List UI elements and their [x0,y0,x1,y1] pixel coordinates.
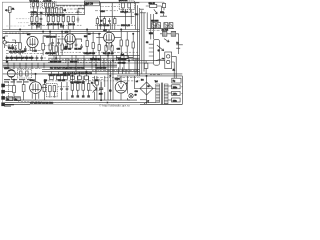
IF can box 1 [30,2,41,8]
ghost row 3 [6,25,26,27]
label row b [46,51,140,53]
capacitor C46 [71,96,74,97]
ghost row 1 [16,18,29,20]
label row r [146,29,162,31]
bus wire F [3,60,165,62]
ghost row 2 [18,22,29,24]
svg-text:C1 С2 Др1: C1 С2 Др1 [30,0,39,2]
junction 12 [123,62,124,63]
bridge diagonals [140,82,153,95]
terminal 2 [2,90,5,93]
bus wire E [48,57,139,59]
transformer core [161,83,162,105]
capacitor C52 [65,44,68,49]
wire [48,22,73,30]
junction 19 [100,99,101,100]
junction 14 [95,65,96,66]
svg-text:220в: 220в [173,87,177,89]
capacitor C45 [84,76,88,80]
bus wire C [3,33,101,35]
wire [36,74,47,88]
tube V3 6K7 [104,32,115,43]
wire [146,6,162,11]
bus wire D [48,54,139,56]
capacitor C50 [8,44,11,49]
wire [176,45,183,48]
svg-text:L2 С4 С5: L2 С4 С5 [44,0,52,2]
junction 6 [121,29,122,30]
wire [145,61,147,74]
wire [50,30,133,61]
resistor R46 [95,80,98,85]
wire [72,76,88,96]
tube V2 electrodes [66,35,73,50]
rectifier tube V5 5Z4 [115,81,127,93]
bus ticks [8,63,44,69]
wire [66,39,82,42]
svg-text:30: 30 [6,62,8,64]
coil L2 [44,3,46,7]
svg-text:С25: С25 [117,49,120,51]
wire [163,2,165,10]
capacitor C5 [77,16,80,22]
capacitor C36 [26,55,29,60]
tap box 127 [172,91,181,95]
svg-text:С50: С50 [135,91,138,93]
capacitor C30 [11,44,14,50]
resistor R10 [72,16,74,22]
wire [95,76,105,100]
capacitor C51 [14,46,17,51]
bus wire K [42,71,139,73]
capacitor C63 [66,86,69,91]
dial lamp P2 [167,60,170,63]
junction [158,50,160,52]
wire [16,73,35,75]
svg-text:Др4: Др4 [121,54,124,56]
wire [40,15,42,30]
wire [160,34,179,54]
coil L10 hatch [164,31,166,36]
tube V5 electrodes [118,76,125,100]
electrolytic C48 [99,82,103,100]
capacitor C42 [63,76,67,80]
label row c [6,52,43,54]
junction 1 [42,31,43,32]
switch arrow 3 [93,85,98,90]
wire [50,92,55,98]
resistor R20 [86,41,88,47]
resistor R28 [13,86,16,93]
label row l [28,24,81,26]
label row f [48,61,116,63]
svg-text:5Ц4С: 5Ц4С [115,79,121,81]
capacitor C34 [16,55,19,60]
wire [140,9,146,13]
gang capacitor [154,39,160,65]
junction 15 [72,75,73,76]
wire [62,82,68,100]
switch arrow [157,45,164,51]
bus wire B [3,31,140,33]
wire [92,55,135,76]
resistor R7 [57,16,59,22]
svg-text:С8: С8 [64,10,66,12]
magic eye tube V6 6E5C [7,70,15,78]
junction 4 [86,29,87,30]
resistor R11 [96,19,98,24]
capacitor C4 [77,8,80,15]
svg-text:R24 R25 R26 R27: R24 R25 R26 R27 [70,82,84,84]
tap box 110 [172,98,181,102]
trimmer C2 [37,3,39,7]
capacitor C49 [87,96,90,97]
resistor R29b [43,85,46,92]
svg-text:С2: С2 [146,42,148,44]
resistor R5 [47,16,49,22]
label row y [5,45,17,47]
svg-text:Тр: Тр [44,82,46,84]
wire [126,10,132,30]
wire [151,14,154,39]
capacitor C60 [51,41,54,46]
svg-text:С24: С24 [135,14,138,16]
border frame bottom [2,103,182,105]
label row aa [58,86,69,88]
svg-text:+2: +2 [136,81,138,83]
svg-text:Др2 С9: Др2 С9 [85,4,93,6]
wire [97,16,114,29]
junction 11 [112,60,113,61]
label row v [95,10,118,12]
IF can box 2 [43,2,56,9]
dark text row 2 [4,81,29,83]
resistor R13 [150,4,157,7]
wire [140,99,147,101]
wire [106,44,112,56]
wire [68,55,137,74]
label row m [95,24,135,26]
capacitor C55 [60,26,64,27]
junction 10 [107,55,108,56]
IF can box 3 [119,1,134,10]
resistor R35 [87,84,90,91]
label row d [48,59,140,61]
wire [172,56,177,78]
coil L11 hatch [172,31,174,36]
gang ticks [149,44,154,56]
address text [4,105,14,106]
antenna coil L1 [9,7,12,13]
border frame [2,2,164,104]
resistor R32 [71,84,74,91]
resistor R8 [62,16,64,22]
wire [56,3,139,15]
wire [123,8,131,12]
resistor R31 [53,86,56,92]
resistor R45 [111,46,113,52]
label row h [5,68,42,70]
coil L5 [128,3,131,8]
wire [5,36,20,48]
resistor R23 [120,40,122,46]
trimmer C3 [52,3,54,7]
bus ticks 2 [54,55,84,63]
capacitor C44 [77,76,81,80]
svg-text:R12 С21 1М: R12 С21 1М [103,53,114,55]
wire [9,76,13,80]
resistor R34 [82,84,85,91]
capacitor C47 [77,96,80,97]
svg-text:С24 25,0 R14 С25 0,05 R15 20К: С24 25,0 R14 С25 0,05 R15 20К С [6,57,34,59]
resistor R2 [51,8,53,13]
dial lamp P1 [167,55,170,58]
wire [9,12,11,29]
wire [51,72,86,76]
wire [57,30,82,40]
label row z [44,45,64,47]
coil L8 hatch [164,23,168,29]
transformer winding [164,84,168,104]
wire [140,76,183,105]
junction 17 [35,73,36,74]
label row o [44,36,64,38]
dashed divider [7,82,9,100]
label row t [57,5,84,7]
coil L6 hatch [152,23,156,29]
capacitor C41 [56,76,60,80]
wire [135,3,137,30]
wire [128,76,138,100]
label row q [120,11,134,13]
resistor R26 [20,71,22,76]
coil L11 [171,31,176,36]
resistor R41 [36,17,38,22]
capacitor C56 [36,26,40,27]
terminal 3 [2,96,5,99]
range coil L9 [169,23,173,28]
resistor R22 [98,45,100,51]
svg-text:С16 910 R9: С16 910 R9 [46,37,56,39]
svg-text:С28 R18 0,1: С28 R18 0,1 [90,59,101,61]
resistor R40 [31,17,33,22]
capacitor C37 [31,55,34,60]
svg-text:С17: С17 [65,47,68,49]
wire [134,76,156,104]
wire [119,67,127,74]
junction 0 [19,29,20,30]
lamp P3 [129,94,133,98]
tube V1 electrodes [29,38,36,52]
junction 2 [49,31,50,32]
label plate [84,1,99,6]
resistor R42 [162,3,165,7]
wire [20,34,50,56]
wire [108,76,113,100]
junction 9 [92,58,93,59]
range coil L8 [164,23,168,28]
heavy bus I [3,66,117,68]
wire [53,39,59,56]
junction 21 [146,75,147,76]
svg-text:50: 50 [148,86,150,88]
resistor R25 [132,42,134,48]
tap box 220 [172,85,181,89]
label row ad [18,101,42,103]
resistor R15 [19,43,22,49]
label row ae [150,74,162,76]
svg-text:6П3С: 6П3С [30,80,36,82]
svg-text:R7 С13 2М: R7 С13 2М [100,25,110,27]
label box 1 [6,97,12,101]
wire [5,86,30,105]
svg-text:Кн: Кн [176,43,178,45]
resistor R43 [114,19,116,24]
svg-text:R2 С6 R3 С7 R4 120: R2 С6 R3 С7 R4 120 [47,15,65,17]
resistor R17 [49,44,51,50]
dark text row [4,79,31,81]
junction 7 [133,33,134,34]
svg-text:С16 R9 910: С16 R9 910 [45,53,55,55]
choke Dr4 [121,56,129,59]
wire [32,12,37,30]
switch arrow 4 [93,89,98,93]
terminal 4 [2,103,5,106]
input jack [3,41,6,44]
svg-text:R11 300: R11 300 [75,49,82,51]
svg-text:Гр1 Гр2: Гр1 Гр2 [162,30,168,32]
fuse box [172,78,181,83]
coil L3 [48,3,50,7]
capacitor C32 [6,55,9,60]
svg-text:R14 1К: R14 1К [149,3,156,5]
anode arrow [160,11,167,16]
tube V1 6K7 [27,36,38,47]
capacitor C35 [21,55,24,60]
resistor R33 [77,84,80,91]
junction 16 [86,71,87,72]
junction 20 [110,75,111,76]
heater bus [5,102,156,104]
capacitor C58 [144,63,148,68]
svg-text:Л1: Л1 [173,70,175,72]
capacitor C31 [24,46,27,52]
wire [6,40,15,44]
svg-text:0,1 5К С10 R5 30: 0,1 5К С10 R5 30 [47,24,62,26]
output tube V4 6P3S [30,82,42,94]
lamp box [165,52,172,69]
tube V2 6A8 [65,34,75,44]
capacitor C62 [60,86,63,91]
coil L4 [122,3,125,8]
bus wire A [3,29,140,31]
magic eye shadow [9,70,14,71]
svg-text:Тр2: Тр2 [155,81,158,83]
coil L9 hatch [169,23,173,29]
coil L7 hatch [157,23,161,29]
coil L10 [162,31,167,36]
junction 18 [13,79,14,80]
resistor R1 [47,8,49,13]
label box 2 [14,97,20,101]
resistor R9 [67,16,69,22]
tuning arrow [154,9,157,14]
svg-text:R21 С31 0,25 Др5 С32 R23 5000: R21 С31 0,25 Др5 С32 R23 5000 С33 [63,73,92,75]
svg-text:С18 0,05 390: С18 0,05 390 [84,53,95,55]
resistor R16 [42,43,45,49]
svg-text:20,0: 20,0 [99,94,102,96]
capacitor C38 [36,55,39,60]
cable bundle [138,5,144,76]
resistor R6 [52,16,54,22]
svg-text:127в: 127в [173,94,177,96]
range coil L6 [152,23,156,28]
capacitor C40 [49,76,53,80]
plug arrow [144,100,149,103]
resistor R18 [55,46,57,52]
svg-text:С11 R6: С11 R6 [69,24,75,26]
terminal 1 [2,84,5,87]
label row j [44,80,140,82]
wire [30,14,84,16]
bus wire L [3,73,183,75]
svg-text:R7: R7 [100,20,102,22]
capacitor C33 [11,55,14,60]
resistor R30 [49,86,52,92]
wire [116,56,133,58]
capacitor C48 [82,96,85,97]
trimmer C1 [32,3,34,7]
capacitor C6 [108,18,111,24]
svg-text:30: 30 [135,95,137,97]
resistor R4 [60,8,62,13]
svg-text:Пк: Пк [91,82,93,84]
tone box [18,69,32,78]
label row w [100,6,118,8]
wire [147,12,174,28]
lamp P3 cross [130,94,133,97]
resistor R24 [126,40,128,46]
svg-text:Зв: Зв [3,37,5,39]
svg-text:110в: 110в [173,101,177,103]
wire [96,30,121,38]
label row i [92,77,140,79]
resistor R12 [103,19,105,24]
capacitor C39 [41,55,44,60]
svg-text:© http://oldradio.qrz.ru: © http://oldradio.qrz.ru [99,104,130,108]
label row a [6,50,44,52]
bottom bus [5,99,130,101]
tube V4 electrodes [31,83,40,100]
svg-text:R10: R10 [84,36,87,38]
junction dot [109,90,111,92]
bridge rectifier [140,82,153,95]
junction 8 [55,58,56,59]
label row n [20,102,96,104]
svg-text:ТрПЧ С22: ТрПЧ С22 [119,0,128,2]
label row e [6,57,46,59]
feedback box [47,84,58,97]
label row s [92,70,138,72]
label row x [5,41,18,43]
svg-text:6Х6С: 6Х6С [100,11,105,13]
wire [101,3,113,30]
bus wire J [42,68,139,70]
wire [99,15,134,17]
wire [78,7,85,9]
resistor R44 [105,46,107,52]
svg-text:R17 2М 0,25 С30 Др4 R19 С31 56: R17 2М 0,25 С30 Др4 R19 С31 560 R21 [50,68,84,70]
